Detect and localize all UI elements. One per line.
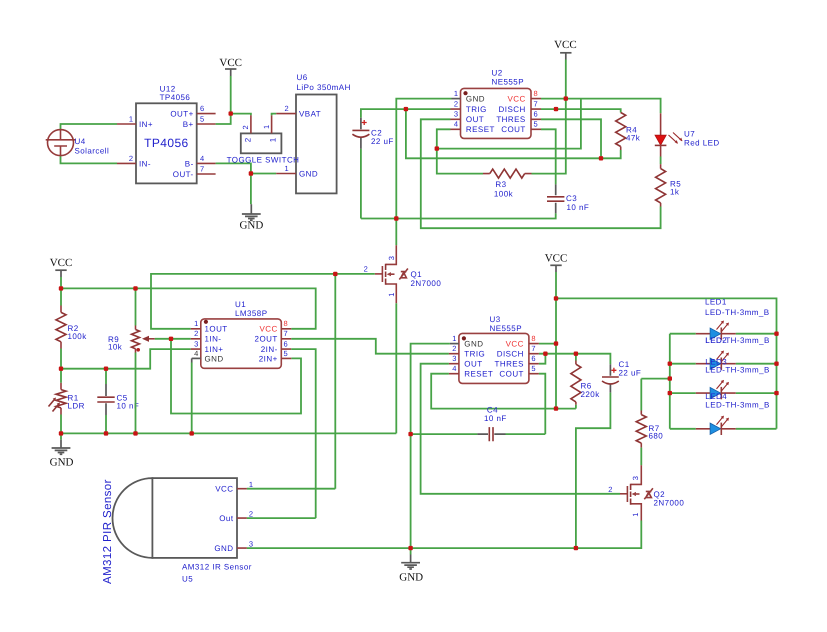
wire VCC mid rail down [555, 272, 557, 409]
svg-text:1: 1 [454, 89, 458, 98]
svg-text:U3: U3 [490, 315, 501, 324]
resistor R1 LDR [49, 369, 85, 434]
toggle switch [241, 115, 282, 153]
solarcell U4 [46, 130, 110, 156]
svg-text:100k: 100k [494, 189, 514, 198]
svg-text:6: 6 [200, 104, 204, 113]
pin 5 B+ [197, 123, 216, 125]
wire Q1 source to GND rail [395, 303, 397, 433]
svg-text:VCC: VCC [545, 252, 568, 264]
junction [59, 286, 63, 290]
wire VCC rail to U1 pin8 [61, 288, 316, 328]
svg-text:B-: B- [185, 159, 194, 168]
svg-text:LED-TH-3mm_B: LED-TH-3mm_B [705, 308, 770, 317]
GND rail left [61, 432, 396, 434]
wire VCC stem to pin8 row [565, 60, 567, 99]
junction [599, 156, 603, 160]
wire U2 TRIG pin2 to C2 [361, 109, 451, 118]
capacitor C1 [602, 360, 641, 393]
svg-text:1: 1 [631, 513, 640, 517]
svg-text:VCC: VCC [506, 340, 524, 349]
wire PIR Out to U1 2IN- riser [247, 517, 316, 519]
wire THRES riser [539, 354, 546, 364]
resistor R6 [571, 354, 600, 409]
junction [249, 171, 253, 175]
VCC flag top-left [219, 57, 242, 76]
potentiometer R9 [108, 288, 140, 433]
svg-text:TP4056: TP4056 [144, 136, 188, 150]
svg-text:TRIG: TRIG [466, 105, 487, 114]
svg-text:7: 7 [284, 329, 288, 338]
svg-text:LDR: LDR [68, 402, 85, 411]
svg-text:LED-TH-3mm_B: LED-TH-3mm_B [705, 400, 770, 409]
svg-text:GND: GND [214, 544, 233, 553]
junction [774, 391, 778, 395]
svg-text:1: 1 [194, 319, 198, 328]
junction [668, 376, 672, 380]
wire U3 pin8 to VCC rail [539, 343, 556, 345]
junction [408, 432, 412, 436]
svg-text:VCC: VCC [219, 57, 242, 69]
wire U3 DISCH to C1 top [539, 354, 611, 365]
svg-text:1: 1 [452, 334, 456, 343]
junction [104, 431, 108, 435]
svg-text:VCC: VCC [554, 39, 577, 51]
svg-text:U5: U5 [182, 575, 193, 584]
svg-text:1k: 1k [670, 187, 680, 196]
wire B- to GND node [216, 163, 277, 173]
junction [564, 96, 568, 100]
junction [554, 107, 558, 111]
svg-text:4: 4 [454, 120, 458, 129]
svg-text:U1: U1 [235, 300, 246, 309]
wire divider row to U1 1IN+ [61, 349, 191, 369]
svg-text:4: 4 [194, 349, 198, 358]
VCC flag middle [545, 252, 568, 272]
svg-text:DISCH: DISCH [497, 350, 524, 359]
junction [104, 367, 108, 371]
svg-text:2: 2 [364, 265, 368, 274]
svg-text:U4: U4 [75, 137, 86, 146]
svg-text:OUT: OUT [464, 360, 482, 369]
svg-text:6: 6 [534, 110, 538, 119]
capacitor C3 [547, 184, 589, 213]
svg-text:COUT: COUT [499, 370, 523, 379]
svg-text:220k: 220k [581, 390, 601, 399]
pin 1 IN+ [117, 123, 136, 125]
wire TRIG riser to THRES line [406, 109, 601, 158]
svg-text:10k: 10k [108, 343, 123, 352]
svg-text:2: 2 [194, 329, 198, 338]
wire U2 RESET pin4 down to R3 [437, 129, 483, 173]
svg-text:Q1: Q1 [411, 270, 423, 279]
pin 7 OUT- [197, 173, 216, 175]
LED LED3 [670, 357, 777, 399]
svg-text:1: 1 [249, 480, 253, 489]
VCC flag top (over U2) [554, 39, 577, 60]
svg-text:IN+: IN+ [139, 120, 153, 129]
pin 4 B- [197, 162, 216, 164]
svg-text:7: 7 [531, 344, 535, 353]
svg-text:AM312 PIR Sensor: AM312 PIR Sensor [102, 479, 114, 584]
junction [133, 431, 137, 435]
junction [774, 362, 778, 366]
svg-text:U7: U7 [684, 129, 695, 138]
wire C3 bottom to C2 bottom [361, 213, 556, 218]
capacitor C4 [411, 406, 546, 442]
capacitor C2 [352, 118, 393, 219]
wire C1 bottom to GND rail [576, 393, 611, 548]
svg-text:LM358P: LM358P [235, 309, 268, 318]
svg-text:3: 3 [631, 476, 640, 480]
wire B+ to VCC node [216, 114, 231, 124]
svg-text:U6: U6 [297, 73, 308, 82]
junction [333, 272, 337, 276]
wire PIR GND rail to Q2 source [247, 521, 641, 549]
PIR pin stubs [237, 489, 247, 548]
svg-text:2IN+: 2IN+ [259, 354, 278, 363]
svg-text:1: 1 [285, 164, 289, 173]
svg-text:LED1: LED1 [705, 297, 727, 306]
svg-text:2N7000: 2N7000 [654, 499, 685, 508]
resistor R2 [56, 288, 87, 368]
svg-text:OUT: OUT [466, 115, 484, 124]
junction [190, 431, 194, 435]
wire U2 COUT pin5 to C3 [541, 129, 556, 184]
svg-text:2: 2 [244, 137, 253, 142]
transistor Q1 2N7000 [364, 245, 442, 303]
U3 pin stubs [450, 343, 459, 345]
junction [59, 367, 63, 371]
svg-text:5: 5 [284, 349, 288, 358]
svg-text:AM312 IR Sensor: AM312 IR Sensor [182, 563, 252, 572]
svg-text:5: 5 [534, 120, 538, 129]
IC U3 NE555P [459, 315, 529, 384]
svg-text:2IN-: 2IN- [261, 345, 278, 354]
svg-text:NE555P: NE555P [490, 324, 523, 333]
wire solarcell bottom to IN- [61, 155, 118, 163]
junction [435, 146, 439, 150]
wire GND node down [250, 174, 252, 205]
junction [668, 362, 672, 366]
pin 1 GND [276, 173, 296, 175]
svg-text:U12: U12 [160, 84, 176, 93]
GND flag middle [399, 548, 423, 583]
svg-text:1: 1 [387, 293, 396, 297]
svg-text:GND: GND [50, 457, 74, 469]
junction [574, 352, 578, 356]
wire U2 pin8 to VCC and LED U7 rail [541, 99, 661, 114]
svg-text:10 nF: 10 nF [484, 414, 507, 423]
svg-text:5: 5 [531, 364, 535, 373]
svg-text:2: 2 [249, 509, 253, 518]
IC U12 TP4056 [136, 84, 197, 183]
junction [668, 391, 672, 395]
junction [133, 286, 137, 290]
svg-text:Out: Out [219, 514, 234, 523]
junction [543, 352, 547, 356]
junction [394, 216, 398, 220]
svg-text:5: 5 [200, 115, 204, 124]
svg-text:RESET: RESET [464, 370, 493, 379]
wire U2 GND pin1 left and down to Q1 drain [396, 99, 451, 246]
svg-text:2: 2 [285, 104, 289, 113]
GND flag under switch [239, 204, 263, 231]
svg-text:GND: GND [205, 354, 224, 363]
wire PIR VCC to gate node riser [247, 488, 335, 490]
svg-text:Red LED: Red LED [684, 138, 720, 147]
svg-text:LED-TH-3mm_B: LED-TH-3mm_B [705, 366, 770, 375]
svg-text:6: 6 [531, 354, 535, 363]
svg-text:C3: C3 [566, 194, 577, 203]
wire 1IN- node to 2IN+ [171, 339, 301, 414]
svg-text:OUT-: OUT- [173, 170, 194, 179]
transistor Q2 2N7000 [608, 465, 684, 520]
LED LED2 [670, 336, 777, 370]
wire VCC to LED top rail [556, 298, 777, 428]
svg-text:3: 3 [387, 256, 396, 260]
svg-text:DISCH: DISCH [499, 105, 526, 114]
svg-text:LiPo 350mAH: LiPo 350mAH [297, 83, 351, 92]
svg-text:3: 3 [194, 339, 198, 348]
wire VCC node to switch pin2 [231, 114, 251, 116]
svg-text:4: 4 [452, 364, 456, 373]
svg-text:22 uF: 22 uF [371, 137, 394, 146]
wire U3 GND pin1 down to GND [411, 344, 450, 548]
wire solarcell top to IN+ [61, 124, 118, 131]
junction [774, 332, 778, 336]
junction [574, 546, 578, 550]
wire RESET riser to pin8 line [437, 99, 581, 149]
junction [554, 296, 558, 300]
svg-text:LED2: LED2 [705, 336, 727, 345]
LED LED4 [670, 392, 777, 435]
svg-text:IN-: IN- [139, 159, 151, 168]
svg-text:GND: GND [299, 169, 318, 178]
resistor R5 [656, 164, 682, 206]
svg-text:2: 2 [129, 154, 133, 163]
pin 2 VBAT [276, 113, 296, 115]
wire THRES riser [541, 119, 601, 158]
svg-text:1: 1 [129, 114, 133, 123]
capacitor C5 [97, 369, 139, 434]
U1 pin stubs [191, 329, 201, 349]
VCC flag left [50, 257, 73, 277]
wire U3 OUT down to Q2 gate [421, 364, 620, 494]
junction [408, 546, 412, 550]
svg-text:VBAT: VBAT [299, 110, 321, 119]
svg-text:B+: B+ [183, 120, 194, 129]
svg-text:GND: GND [466, 95, 485, 104]
svg-text:1OUT: 1OUT [205, 325, 228, 334]
svg-text:2: 2 [608, 485, 612, 494]
wire VCC stem [230, 76, 232, 114]
svg-text:47k: 47k [626, 133, 641, 142]
wire U1 2IN- down to PIR Out [291, 349, 315, 518]
svg-text:3: 3 [249, 539, 253, 548]
wire U3 COUT to C4 [539, 374, 545, 434]
svg-text:2OUT: 2OUT [255, 335, 278, 344]
wire U3 RESET to VCC/R6 bottom [431, 374, 576, 409]
svg-text:8: 8 [534, 89, 538, 98]
wire VCC stem [60, 277, 62, 288]
svg-text:GND: GND [464, 340, 483, 349]
U2 pin stubs [452, 98, 461, 100]
LED LED1 [670, 297, 777, 340]
junction [554, 341, 558, 345]
svg-text:2: 2 [452, 344, 456, 353]
wire R9 wiper arrow from U1 1IN- [155, 338, 191, 340]
wire U2 OUT pin3 down and right to R5 [421, 119, 661, 228]
svg-text:THRES: THRES [496, 115, 525, 124]
svg-text:TOGGLE SWITCH: TOGGLE SWITCH [227, 156, 300, 165]
svg-text:1: 1 [262, 125, 271, 129]
svg-text:OUT+: OUT+ [170, 110, 193, 119]
svg-text:U2: U2 [492, 69, 503, 78]
IC U2 NE555P [461, 69, 532, 139]
wire switch pin1 to VBAT [272, 114, 277, 116]
junction [169, 337, 173, 341]
svg-text:1: 1 [269, 137, 278, 142]
svg-text:VCC: VCC [259, 325, 277, 334]
wire THRES node to R4 bottom [601, 150, 621, 158]
svg-text:VCC: VCC [215, 485, 233, 494]
wire U1 GND pin4 down to rail [191, 358, 193, 362]
junction [404, 107, 408, 111]
wire U1 2OUT to U3 TRIG [291, 339, 449, 354]
svg-text:6: 6 [284, 339, 288, 348]
svg-text:COUT: COUT [501, 125, 525, 134]
svg-text:8: 8 [531, 334, 535, 343]
pin 6 OUT+ [197, 113, 216, 115]
svg-text:GND: GND [239, 220, 263, 232]
wire R3 right to VCC [532, 99, 566, 174]
wire Q1 gate to U1 1OUT [151, 274, 375, 329]
svg-text:22 uF: 22 uF [619, 368, 642, 377]
svg-text:680: 680 [649, 432, 664, 441]
svg-text:7: 7 [534, 99, 538, 108]
IC U1 LM358P [201, 300, 281, 368]
GND flag left [50, 433, 74, 468]
wire gate node riser to PIR VCC [334, 274, 336, 489]
svg-text:NE555P: NE555P [492, 78, 525, 87]
svg-text:7: 7 [200, 165, 204, 174]
svg-text:VCC: VCC [507, 95, 525, 104]
junction [59, 431, 63, 435]
resistor R4 [616, 113, 641, 151]
wire U2 DISCH pin7 to R4 top [541, 109, 621, 112]
svg-text:3: 3 [454, 110, 458, 119]
resistor R3 [483, 169, 532, 198]
svg-text:8: 8 [284, 319, 288, 328]
svg-text:10 nF: 10 nF [567, 203, 590, 212]
svg-text:Solarcell: Solarcell [75, 147, 110, 156]
svg-text:4: 4 [200, 154, 204, 163]
svg-text:100k: 100k [68, 332, 88, 341]
svg-text:THRES: THRES [495, 360, 524, 369]
junction [229, 111, 233, 115]
svg-text:2: 2 [241, 125, 250, 129]
junction [554, 406, 558, 410]
svg-text:R3: R3 [495, 180, 506, 189]
svg-text:1IN-: 1IN- [205, 335, 222, 344]
svg-text:3: 3 [452, 354, 456, 363]
svg-text:TP4056: TP4056 [160, 93, 191, 102]
svg-text:VCC: VCC [50, 257, 73, 269]
svg-text:2: 2 [454, 99, 458, 108]
svg-text:GND: GND [399, 571, 423, 583]
svg-text:1IN+: 1IN+ [205, 345, 224, 354]
svg-text:TRIG: TRIG [464, 350, 485, 359]
resistor R7 [636, 379, 670, 466]
PIR sensor U5 AM312 [102, 478, 252, 584]
LED U7 red [655, 113, 720, 164]
svg-text:2N7000: 2N7000 [411, 279, 442, 288]
LED block left vertical [669, 334, 671, 429]
pin 2 IN- [117, 162, 136, 164]
battery U6 LiPo [296, 73, 351, 193]
svg-text:RESET: RESET [466, 125, 495, 134]
